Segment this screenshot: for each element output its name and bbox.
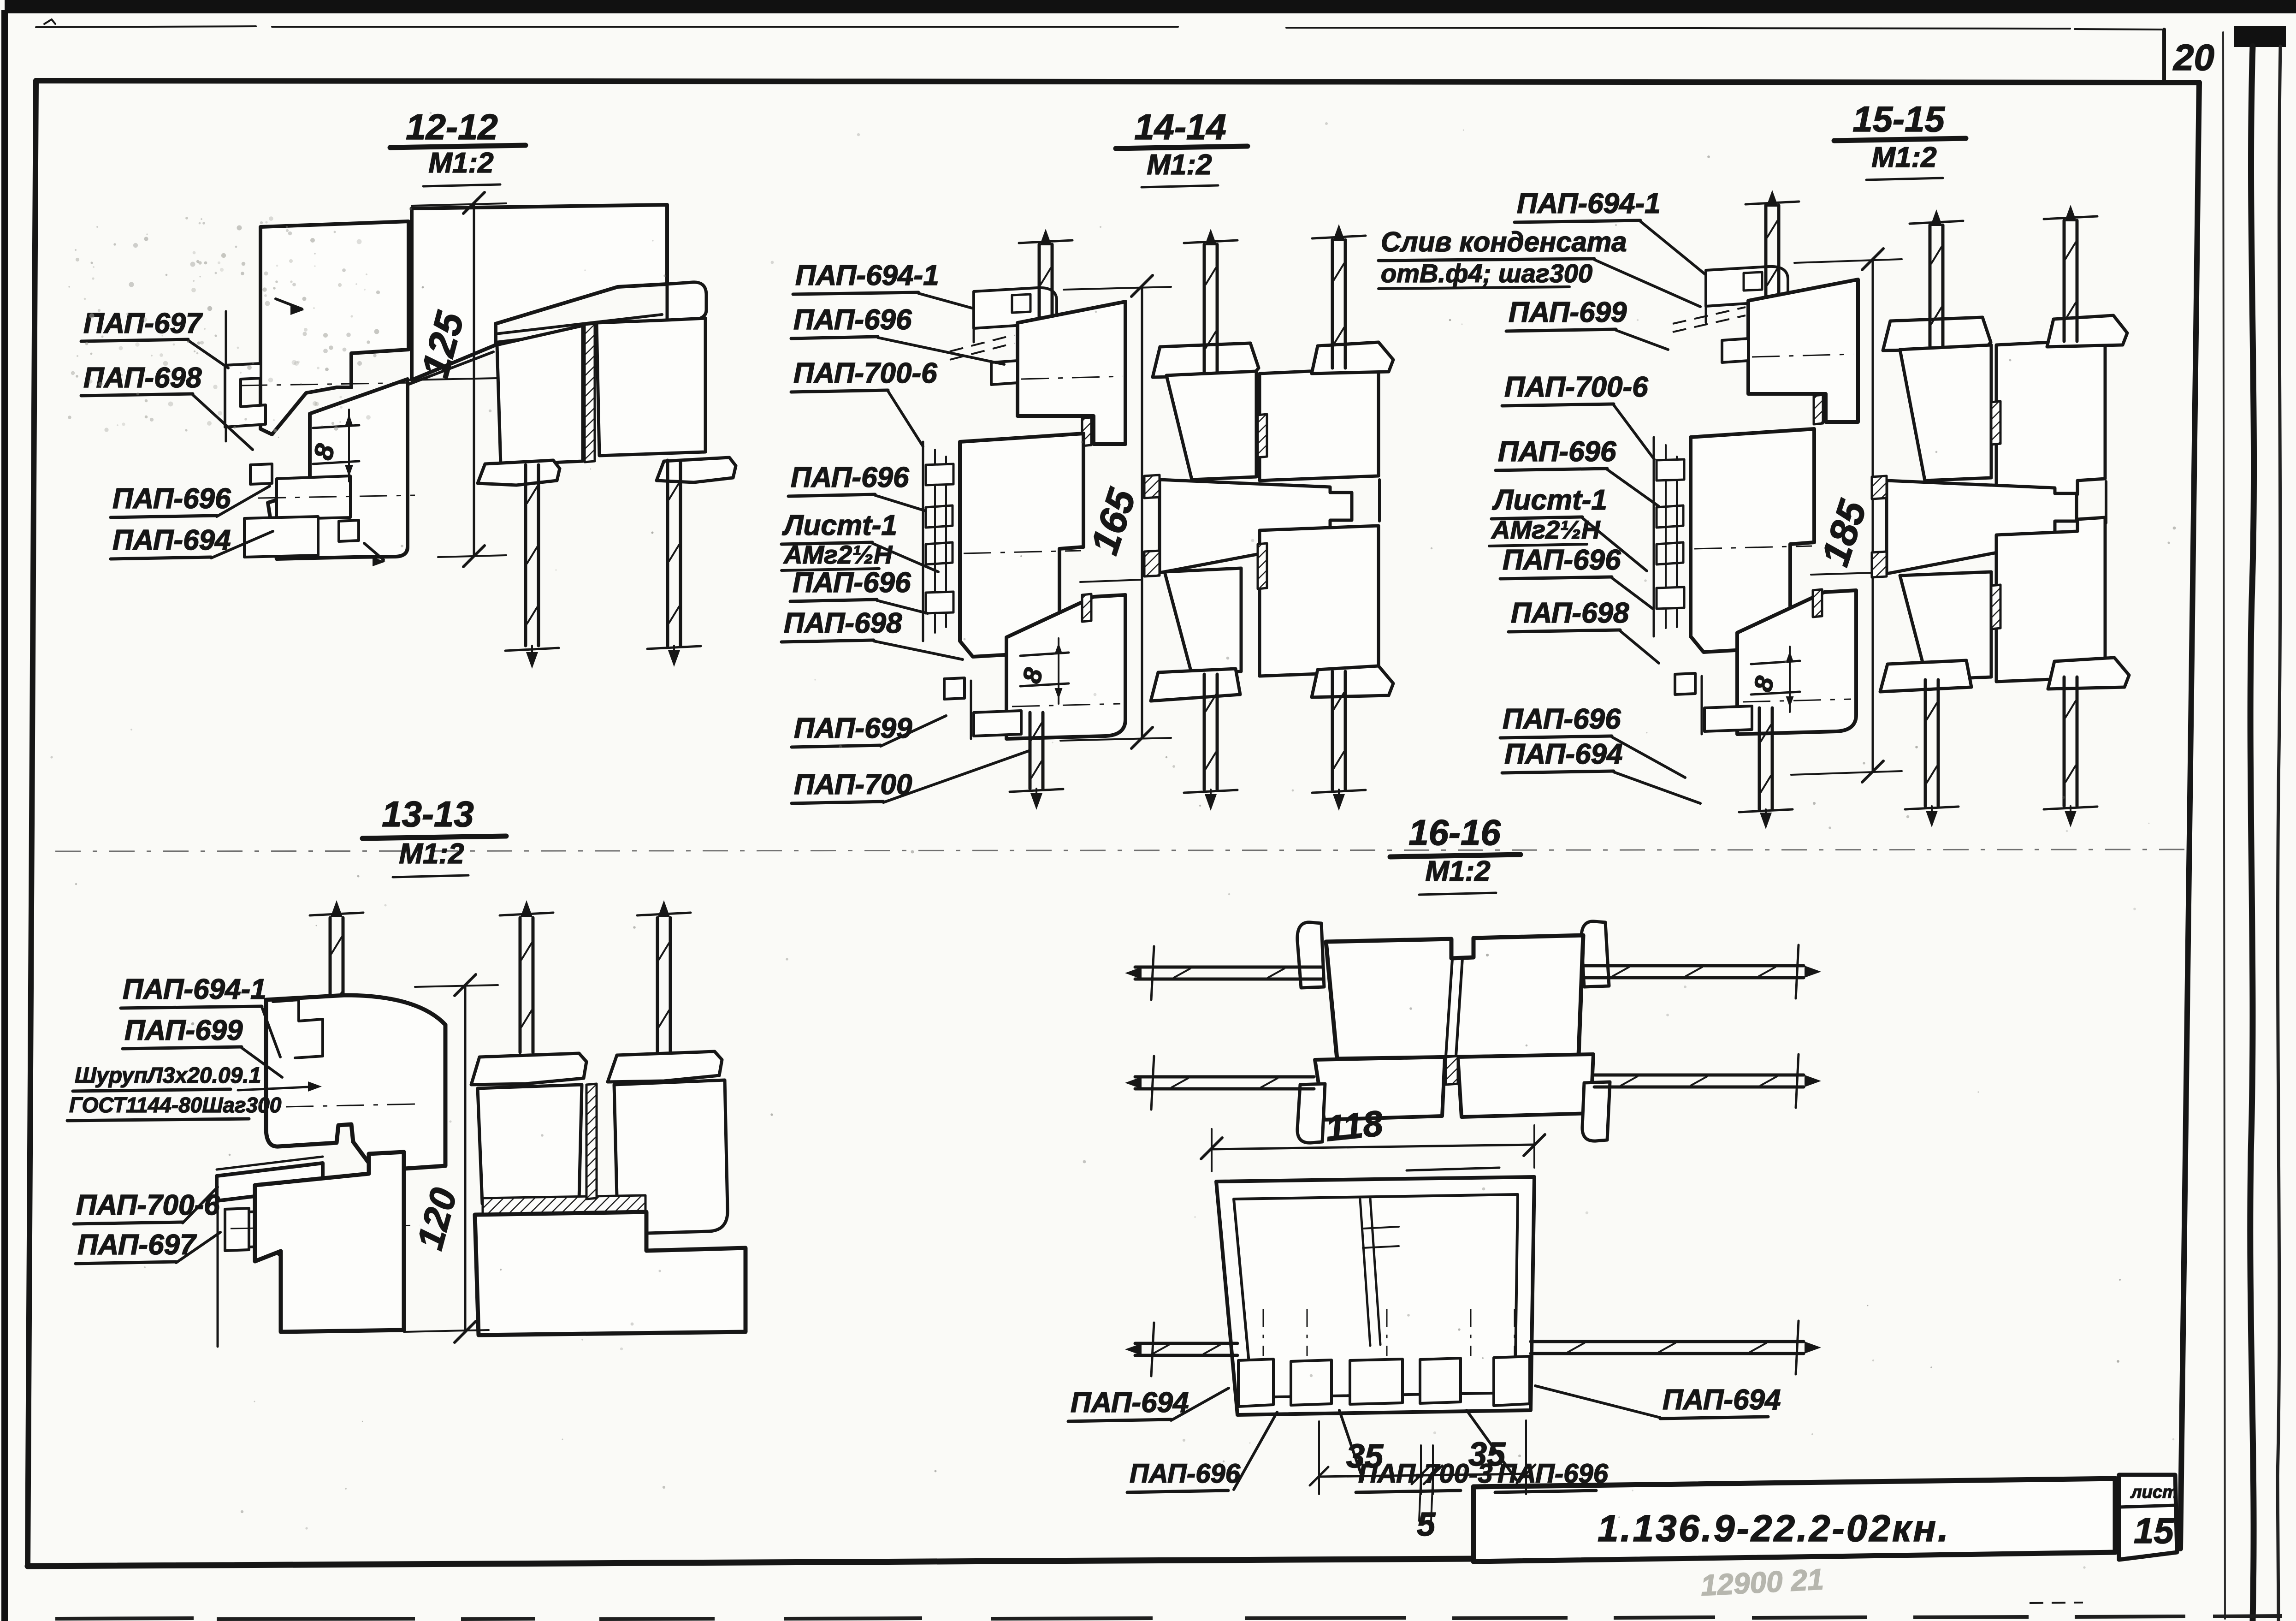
svg-text:ПАП-694: ПАП-694: [1071, 1387, 1189, 1419]
svg-text:ПАП-696: ПАП-696: [1503, 544, 1621, 576]
svg-text:ПАП-697: ПАП-697: [77, 1229, 197, 1261]
svg-text:ПАП-696: ПАП-696: [791, 462, 909, 493]
svg-text:ПАП-698: ПАП-698: [784, 607, 902, 639]
svg-text:М1:2: М1:2: [1871, 142, 1936, 173]
svg-text:ПАП-694: ПАП-694: [1504, 738, 1623, 770]
svg-text:5: 5: [1417, 1506, 1436, 1543]
svg-text:14-14: 14-14: [1134, 107, 1226, 147]
svg-text:М1:2: М1:2: [399, 838, 464, 870]
svg-text:ПАП-696: ПАП-696: [793, 304, 912, 336]
svg-text:ПАП-697: ПАП-697: [83, 308, 203, 339]
svg-text:ПАП-694: ПАП-694: [1663, 1384, 1781, 1416]
svg-text:ПАП-694-1: ПАП-694-1: [123, 974, 266, 1005]
svg-text:ПАП-696: ПАП-696: [1498, 436, 1616, 468]
svg-text:ПАП-696: ПАП-696: [793, 567, 911, 599]
svg-text:М1:2: М1:2: [1147, 149, 1212, 181]
svg-text:ПАП-696: ПАП-696: [1503, 703, 1621, 735]
svg-text:отВ.ф4; шаг300: отВ.ф4; шаг300: [1381, 259, 1592, 288]
svg-text:Слив конденсата: Слив конденсата: [1381, 226, 1627, 257]
svg-text:13-13: 13-13: [382, 794, 474, 834]
svg-text:Лисmt-1: Лисmt-1: [782, 510, 897, 541]
svg-text:ПАП-694: ПАП-694: [112, 524, 231, 556]
svg-text:12-12: 12-12: [406, 107, 498, 147]
svg-text:ПАП-700: ПАП-700: [794, 769, 912, 801]
svg-text:М1:2: М1:2: [428, 147, 493, 179]
svg-text:М1:2: М1:2: [1425, 855, 1490, 887]
svg-text:ПАП-698: ПАП-698: [1511, 597, 1629, 629]
svg-text:ПАП-698: ПАП-698: [83, 362, 202, 394]
svg-text:20: 20: [2172, 37, 2214, 78]
svg-text:118: 118: [1324, 1103, 1385, 1149]
svg-text:ГОСТ1144-80Шаг300: ГОСТ1144-80Шаг300: [69, 1093, 282, 1117]
svg-text:ПАП-696: ПАП-696: [1130, 1459, 1241, 1489]
svg-text:15: 15: [2134, 1510, 2174, 1551]
svg-text:ПАП-696: ПАП-696: [1497, 1459, 1609, 1489]
svg-text:ШурупЛ3х20.09.1: ШурупЛ3х20.09.1: [75, 1063, 261, 1088]
svg-text:16-16: 16-16: [1408, 812, 1501, 853]
svg-text:ПАП-694-1: ПАП-694-1: [795, 260, 939, 291]
svg-text:1.136.9-22.2-02кн.: 1.136.9-22.2-02кн.: [1598, 1508, 1950, 1550]
svg-text:15-15: 15-15: [1852, 99, 1945, 139]
svg-text:12900 21: 12900 21: [1700, 1562, 1824, 1602]
svg-text:ПАП-696: ПАП-696: [112, 483, 231, 515]
svg-text:ПАП-700-6: ПАП-700-6: [1504, 371, 1648, 403]
svg-text:ПАП-700-6: ПАП-700-6: [793, 357, 937, 389]
svg-text:ПАП-699: ПАП-699: [124, 1015, 243, 1046]
svg-text:ПАП-699: ПАП-699: [1509, 297, 1627, 328]
svg-text:ПАП-700-3: ПАП-700-3: [1358, 1459, 1493, 1489]
svg-text:ПАП-694-1: ПАП-694-1: [1517, 188, 1661, 220]
svg-text:лист: лист: [2130, 1483, 2178, 1502]
